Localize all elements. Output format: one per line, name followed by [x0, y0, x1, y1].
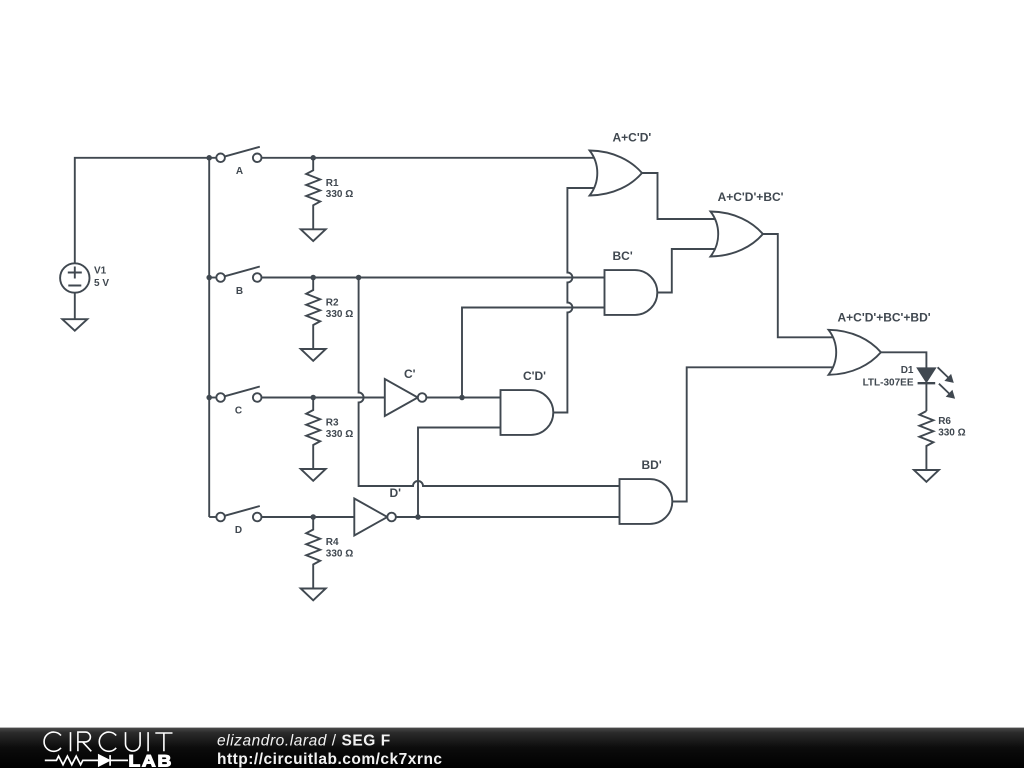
svg-text:A+C'D': A+C'D' — [613, 130, 652, 144]
svg-text:R6: R6 — [938, 416, 951, 427]
svg-text:B: B — [236, 286, 243, 297]
svg-text:A+C'D'+BC': A+C'D'+BC' — [718, 190, 784, 204]
svg-text:5 V: 5 V — [94, 278, 109, 289]
svg-text:C'D': C'D' — [523, 369, 546, 383]
svg-text:elizandro.larad / SEG F: elizandro.larad / SEG F — [217, 733, 391, 750]
svg-text:D': D' — [390, 486, 402, 500]
svg-text:LTL-307EE: LTL-307EE — [863, 377, 914, 388]
svg-text:R1: R1 — [326, 178, 339, 189]
svg-text:330 Ω: 330 Ω — [326, 189, 353, 200]
svg-text:BC': BC' — [613, 249, 633, 263]
svg-text:BD': BD' — [642, 458, 662, 472]
svg-text:D: D — [235, 525, 242, 536]
svg-text:R2: R2 — [326, 298, 339, 309]
svg-text:V1: V1 — [94, 266, 107, 277]
svg-text:C': C' — [404, 367, 416, 381]
svg-text:R4: R4 — [326, 537, 339, 548]
svg-text:R3: R3 — [326, 418, 339, 429]
svg-text:330 Ω: 330 Ω — [938, 427, 965, 438]
svg-text:330 Ω: 330 Ω — [326, 309, 353, 320]
svg-text:A: A — [236, 166, 243, 177]
svg-text:D1: D1 — [901, 365, 914, 376]
svg-text:LAB: LAB — [129, 752, 174, 768]
svg-text:http://circuitlab.com/ck7xrnc: http://circuitlab.com/ck7xrnc — [217, 751, 443, 768]
svg-text:330 Ω: 330 Ω — [326, 429, 353, 440]
svg-text:A+C'D'+BC'+BD': A+C'D'+BC'+BD' — [838, 310, 931, 324]
svg-text:C: C — [235, 406, 242, 417]
svg-text:330 Ω: 330 Ω — [326, 548, 353, 559]
